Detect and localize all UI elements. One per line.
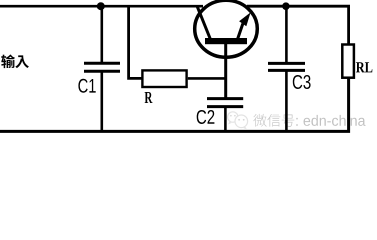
transistor Q1 emitter lead [237,24,243,42]
wire: top rail right (emitter to output corner, down to RL) [247,6,349,44]
wire: C1 top lead [101,5,104,62]
wire: base lead down to C2 [224,41,227,98]
transistor Q1 circle [195,0,258,57]
wire: C3 bottom lead [285,70,288,131]
watermark text : edn-china [296,115,365,126]
wire: C3 top lead [285,5,288,63]
label R [145,92,153,103]
label C3 [293,75,311,89]
wire: C1 bottom lead [101,71,104,131]
label C2 [197,110,215,124]
watermark logo (chat bubbles) [228,112,248,130]
capacitor C2 [207,99,243,107]
label input 输入 [1,55,29,69]
capacitor C3 [268,63,305,70]
label RL [356,62,373,72]
wire: R to base node [188,77,227,80]
capacitor C1 [84,63,120,71]
transistor Q1 emitter arrowhead [239,12,251,26]
wire: RL bottom lead and bottom rail [0,78,349,131]
wire: top rail left (input to transistor) [0,5,203,8]
wire: C2 bottom lead [224,107,227,132]
wire: R branch from top rail [129,5,142,78]
transistor Q1 collector lead [197,6,210,39]
label C1 [78,79,95,93]
resistor R [142,70,186,87]
resistor RL [342,45,354,78]
node: junction dot C1/top rail [97,2,105,10]
node: junction dot C3/top rail [282,2,290,10]
watermark text 微信号 [253,114,294,127]
transistor Q1 base bar [205,38,247,44]
